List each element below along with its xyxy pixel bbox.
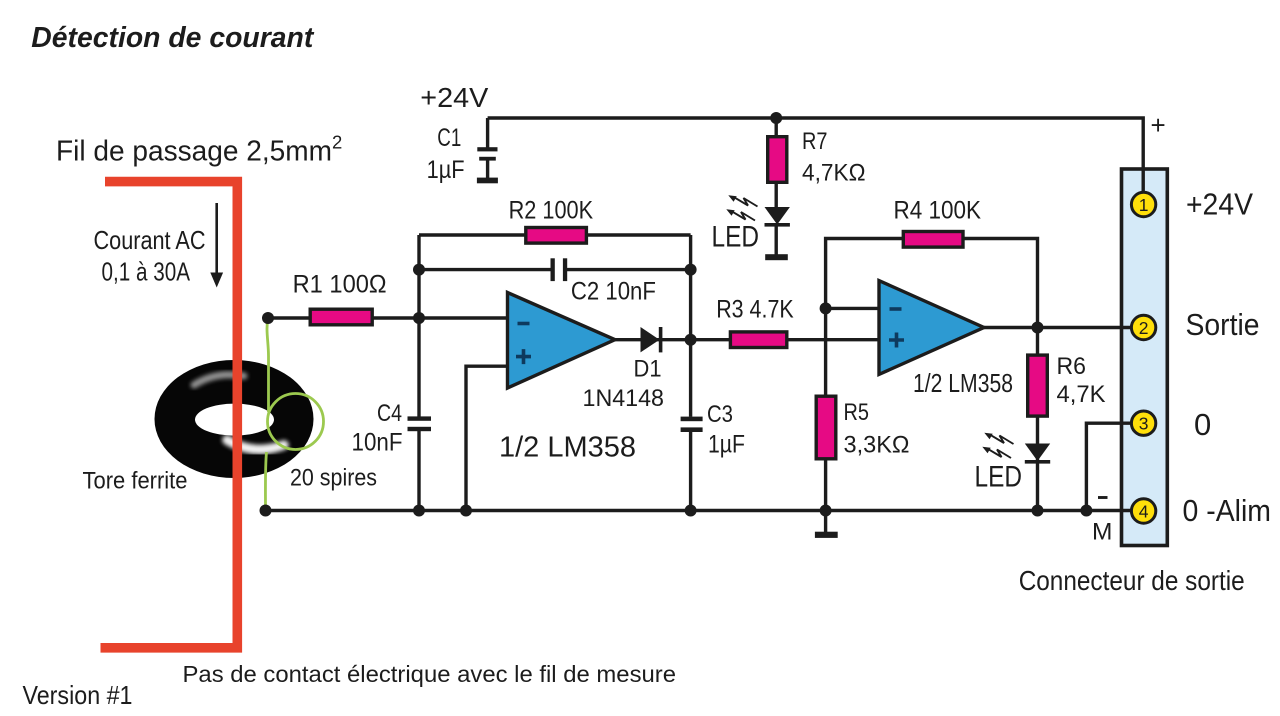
junction node A to C2 <box>413 264 425 276</box>
LED2 emission arrows <box>988 435 1014 458</box>
connector J1 (Connecteur de sortie) <box>1122 169 1168 546</box>
fil de passage (red wire) <box>101 182 238 648</box>
wire R2 feedback top <box>419 233 691 236</box>
wire R5 branch <box>824 308 827 532</box>
svg-text:4: 4 <box>1139 502 1149 522</box>
capacitor C1 <box>477 147 498 183</box>
svg-text:0 -Alim: 0 -Alim <box>1183 493 1272 528</box>
svg-text:C3: C3 <box>707 401 733 428</box>
LED2 (under R6) <box>1025 444 1050 464</box>
junction ground rail pin 3 <box>1080 505 1092 517</box>
svg-text:R7: R7 <box>802 128 828 155</box>
svg-text:+24V: +24V <box>420 82 488 113</box>
resistor R1 <box>310 309 372 325</box>
svg-text:Tore ferrite: Tore ferrite <box>83 468 188 495</box>
junction node A on input line <box>413 312 425 324</box>
connector pin 3 <box>1131 411 1155 435</box>
wire U2 output to pin 2 <box>984 326 1135 329</box>
wire vertical node B (x=690.6) <box>689 235 692 511</box>
wire U1 output through D1 <box>615 338 691 341</box>
op-amp U1 (1/2 LM358) <box>508 293 616 389</box>
wire U2- input <box>826 307 879 310</box>
resistor R2 <box>526 228 587 244</box>
svg-text:1: 1 <box>1139 195 1149 215</box>
resistor R5 <box>816 396 836 459</box>
svg-text:+24V: +24V <box>1186 187 1253 222</box>
connector pin 2 <box>1131 315 1155 339</box>
svg-text:Détection de courant: Détection de courant <box>31 22 314 54</box>
svg-text:1N4148: 1N4148 <box>583 385 665 412</box>
svg-text:Courant AC: Courant AC <box>94 225 206 255</box>
svg-text:LED: LED <box>975 461 1023 494</box>
svg-text:Sortie: Sortie <box>1186 307 1260 342</box>
wire input line R1 to U1- <box>268 316 508 319</box>
svg-text:4,7K: 4,7K <box>1057 381 1107 408</box>
svg-text:4,7KΩ: 4,7KΩ <box>802 160 866 187</box>
svg-text:Connecteur de sortie: Connecteur de sortie <box>1019 565 1245 596</box>
junction ground rail R5 <box>820 505 832 517</box>
svg-text:LED: LED <box>712 221 760 254</box>
svg-text:2: 2 <box>1139 318 1149 338</box>
resistor R6 <box>1028 355 1048 416</box>
resistor R3 <box>730 332 786 348</box>
green winding (20 spires) <box>265 318 323 511</box>
wire U1+ input <box>466 366 508 510</box>
svg-text:R5: R5 <box>844 399 870 426</box>
svg-text:Fil de passage 2,5mm2: Fil de passage 2,5mm2 <box>56 131 342 167</box>
wire pin 3 to ground rail <box>1086 423 1135 511</box>
connector pin 4 <box>1131 499 1155 523</box>
diode D1 <box>641 327 663 352</box>
junction ground rail C4 <box>413 505 425 517</box>
resistor R4 <box>903 232 963 248</box>
svg-text:R3 4.7K: R3 4.7K <box>716 296 794 324</box>
svg-text:1µF: 1µF <box>427 156 465 184</box>
svg-text:10nF: 10nF <box>352 429 403 457</box>
wire R6/LED branch <box>1036 328 1039 511</box>
svg-text:1/2 LM358: 1/2 LM358 <box>913 368 1013 398</box>
svg-text:20 spires: 20 spires <box>290 465 377 492</box>
svg-text:R6: R6 <box>1057 353 1087 380</box>
capacitor C4 <box>408 416 432 431</box>
junction ground rail U1+ <box>460 505 472 517</box>
svg-text:D1: D1 <box>634 356 662 383</box>
svg-text:C2 10nF: C2 10nF <box>571 278 656 306</box>
svg-text:R1 100Ω: R1 100Ω <box>293 271 387 299</box>
junction ground rail LED2 <box>1032 505 1044 517</box>
wire LED1 leads <box>775 183 778 255</box>
wire ground rail bottom <box>266 509 1136 512</box>
wire R7 drop from rail <box>775 118 778 137</box>
svg-text:R2 100K: R2 100K <box>509 197 594 225</box>
wire vertical node A (x=419) <box>417 235 420 511</box>
capacitor C3 <box>681 417 703 432</box>
svg-text:+: + <box>1151 110 1166 140</box>
junction +24V rail to R7 <box>770 112 782 124</box>
resistor R7 <box>768 137 787 183</box>
svg-text:0,1 à 30A: 0,1 à 30A <box>102 257 191 287</box>
ground (under LED1) <box>765 254 788 260</box>
junction ground rail C3 <box>685 505 697 517</box>
junction ground rail left end <box>260 505 272 517</box>
op-amp U2 (1/2 LM358) <box>879 281 984 375</box>
capacitor C2 <box>551 258 568 281</box>
wire C2 branch <box>419 268 691 271</box>
wire R4 feedback loop <box>826 239 1038 328</box>
svg-text:3: 3 <box>1139 414 1149 434</box>
junction U2 output to R6 <box>1032 322 1044 334</box>
LED1 emission arrows <box>732 197 758 220</box>
junction node B to C2 <box>685 264 697 276</box>
junction winding to R1 input <box>262 312 274 324</box>
svg-text:Pas de contact électrique avec: Pas de contact électrique avec le fil de… <box>183 661 677 687</box>
svg-text:C4: C4 <box>377 400 402 427</box>
junction node B D1 output <box>685 334 697 346</box>
svg-text:M: M <box>1092 519 1112 546</box>
svg-text:0: 0 <box>1194 407 1211 442</box>
ground (under R5) <box>815 532 838 538</box>
ferrite torus core <box>155 360 314 478</box>
wire R3 to U2+ <box>691 338 879 341</box>
svg-text:1µF: 1µF <box>708 431 745 459</box>
arrow courant AC <box>210 203 223 288</box>
connector pin 1 <box>1131 192 1155 216</box>
svg-text:C1: C1 <box>437 124 461 152</box>
svg-text:Version #1: Version #1 <box>23 680 133 710</box>
wire +24V top rail <box>488 118 1144 196</box>
label minus polarity <box>1098 496 1108 499</box>
svg-text:1/2 LM358: 1/2 LM358 <box>499 432 636 464</box>
svg-text:3,3KΩ: 3,3KΩ <box>844 432 910 459</box>
wire C1 leads <box>486 118 489 178</box>
junction U2 inverting node <box>820 302 832 314</box>
LED1 (under R7) <box>765 207 790 227</box>
svg-text:R4 100K: R4 100K <box>894 197 982 225</box>
